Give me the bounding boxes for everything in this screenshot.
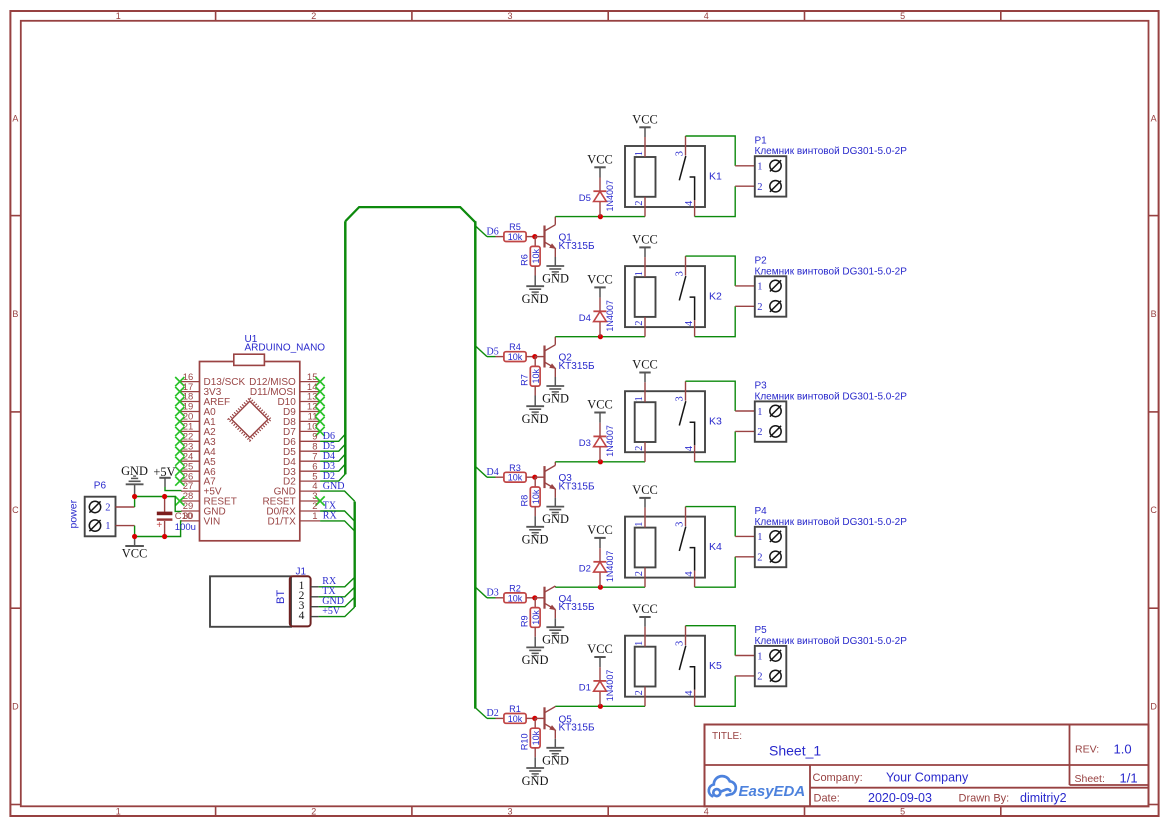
svg-text:K3: K3 [709, 416, 722, 428]
svg-text:2: 2 [634, 571, 645, 576]
svg-text:D: D [1150, 702, 1157, 712]
svg-text:Клемник винтовой DG301-5.0-2P: Клемник винтовой DG301-5.0-2P [755, 266, 908, 277]
svg-text:1N4007: 1N4007 [605, 425, 615, 457]
svg-text:P5: P5 [755, 625, 768, 636]
svg-text:1: 1 [757, 407, 762, 418]
svg-text:J1: J1 [296, 567, 307, 578]
svg-text:VCC: VCC [587, 642, 612, 656]
svg-text:C: C [12, 505, 19, 515]
svg-text:2: 2 [105, 503, 110, 514]
svg-text:KT315Б: KT315Б [559, 481, 595, 492]
svg-text:1: 1 [634, 396, 645, 401]
svg-text:1: 1 [116, 11, 121, 21]
svg-text:R8: R8 [520, 495, 530, 507]
svg-text:2: 2 [634, 446, 645, 451]
svg-text:GND: GND [522, 653, 549, 667]
svg-text:10k: 10k [508, 714, 523, 724]
svg-text:GND: GND [542, 753, 569, 767]
svg-text:1: 1 [105, 521, 110, 532]
svg-text:10k: 10k [531, 610, 541, 625]
svg-text:1: 1 [312, 511, 317, 522]
svg-text:P1: P1 [755, 136, 768, 147]
svg-text:1: 1 [116, 806, 121, 816]
svg-text:GND: GND [542, 272, 569, 286]
svg-text:+5V: +5V [153, 465, 175, 479]
svg-text:P2: P2 [755, 256, 768, 267]
svg-text:power: power [68, 499, 80, 528]
svg-text:3: 3 [507, 806, 512, 816]
svg-text:D2: D2 [487, 708, 499, 719]
svg-text:GND: GND [522, 774, 549, 788]
svg-text:Клемник винтовой DG301-5.0-2P: Клемник винтовой DG301-5.0-2P [755, 391, 908, 402]
svg-text:K1: K1 [709, 170, 722, 182]
svg-text:D4: D4 [579, 313, 591, 324]
svg-text:1N4007: 1N4007 [605, 551, 615, 583]
svg-text:R7: R7 [520, 374, 530, 386]
svg-text:C: C [1150, 505, 1157, 515]
svg-text:3: 3 [674, 641, 685, 646]
svg-text:5: 5 [900, 11, 905, 21]
svg-text:K2: K2 [709, 291, 722, 303]
svg-text:5: 5 [900, 806, 905, 816]
svg-text:VCC: VCC [632, 233, 657, 247]
svg-text:VCC: VCC [587, 273, 612, 287]
svg-text:D2: D2 [579, 563, 591, 574]
svg-text:KT315Б: KT315Б [559, 241, 595, 252]
svg-text:1N4007: 1N4007 [605, 300, 615, 332]
svg-text:Клемник винтовой DG301-5.0-2P: Клемник винтовой DG301-5.0-2P [755, 636, 908, 647]
svg-text:2: 2 [311, 806, 316, 816]
svg-text:B: B [1151, 309, 1157, 319]
svg-text:10k: 10k [531, 730, 541, 745]
svg-text:2020-09-03: 2020-09-03 [868, 791, 932, 805]
svg-text:10k: 10k [508, 352, 523, 362]
svg-text:4: 4 [684, 571, 695, 577]
svg-text:2: 2 [757, 302, 762, 313]
svg-text:REV:: REV: [1075, 744, 1099, 756]
svg-text:R5: R5 [509, 222, 521, 232]
svg-text:10k: 10k [508, 593, 523, 603]
svg-text:1: 1 [757, 282, 762, 293]
svg-text:TITLE:: TITLE: [712, 731, 742, 742]
svg-text:C10: C10 [175, 511, 192, 522]
svg-text:K5: K5 [709, 660, 722, 672]
svg-text:+5V: +5V [322, 606, 341, 617]
svg-text:3: 3 [674, 151, 685, 156]
svg-text:1: 1 [634, 641, 645, 646]
svg-text:D6: D6 [487, 226, 499, 237]
svg-text:4: 4 [704, 11, 709, 21]
svg-text:VCC: VCC [632, 112, 657, 126]
svg-text:10k: 10k [531, 489, 541, 504]
svg-text:R4: R4 [509, 342, 521, 352]
svg-text:Клемник винтовой DG301-5.0-2P: Клемник винтовой DG301-5.0-2P [755, 146, 908, 157]
svg-text:RX: RX [323, 511, 338, 522]
svg-text:4: 4 [684, 200, 695, 206]
svg-text:2: 2 [757, 427, 762, 438]
svg-text:100u: 100u [175, 522, 196, 533]
svg-text:GND: GND [522, 533, 549, 547]
svg-text:2: 2 [757, 672, 762, 683]
svg-text:BT: BT [275, 590, 287, 604]
svg-text:GND: GND [121, 464, 148, 478]
svg-text:D: D [12, 702, 19, 712]
svg-text:3: 3 [507, 11, 512, 21]
svg-text:dimitriy2: dimitriy2 [1020, 791, 1067, 805]
svg-text:10k: 10k [531, 369, 541, 384]
svg-text:3: 3 [674, 271, 685, 276]
svg-text:KT315Б: KT315Б [559, 723, 595, 734]
svg-text:R6: R6 [520, 254, 530, 266]
svg-text:R3: R3 [509, 463, 521, 473]
svg-text:KT315Б: KT315Б [559, 361, 595, 372]
svg-text:R10: R10 [520, 733, 530, 750]
svg-text:KT315Б: KT315Б [559, 602, 595, 613]
svg-text:Company:: Company: [813, 772, 863, 784]
svg-text:D3: D3 [579, 438, 591, 449]
svg-text:ARDUINO_NANO: ARDUINO_NANO [245, 343, 326, 354]
svg-text:+: + [156, 520, 162, 531]
svg-text:R1: R1 [509, 704, 521, 714]
svg-text:GND: GND [542, 512, 569, 526]
svg-text:1: 1 [757, 532, 762, 543]
svg-text:Sheet:: Sheet: [1075, 773, 1105, 785]
svg-text:1.0: 1.0 [1114, 742, 1132, 757]
svg-text:D4: D4 [487, 467, 499, 478]
svg-text:VCC: VCC [122, 547, 147, 561]
svg-text:3: 3 [674, 396, 685, 401]
svg-text:D5: D5 [487, 346, 499, 357]
svg-text:D1/TX: D1/TX [267, 517, 296, 528]
svg-text:4: 4 [684, 445, 695, 451]
svg-text:R2: R2 [509, 583, 521, 593]
svg-text:Your Company: Your Company [886, 771, 969, 785]
svg-text:R9: R9 [520, 615, 530, 627]
svg-text:10k: 10k [531, 249, 541, 264]
svg-text:GND: GND [542, 633, 569, 647]
svg-text:GND: GND [542, 392, 569, 406]
svg-text:A: A [1151, 113, 1157, 123]
svg-text:4: 4 [684, 320, 695, 326]
svg-text:1: 1 [634, 522, 645, 527]
svg-text:D3: D3 [487, 588, 499, 599]
svg-text:1N4007: 1N4007 [605, 180, 615, 212]
svg-text:10k: 10k [508, 232, 523, 242]
svg-text:Клемник винтовой DG301-5.0-2P: Клемник винтовой DG301-5.0-2P [755, 517, 908, 528]
svg-text:4: 4 [704, 806, 709, 816]
svg-text:1N4007: 1N4007 [605, 670, 615, 702]
svg-text:4: 4 [299, 610, 305, 622]
svg-text:VCC: VCC [587, 398, 612, 412]
svg-text:2: 2 [757, 182, 762, 193]
svg-text:VCC: VCC [632, 358, 657, 372]
svg-text:B: B [12, 309, 18, 319]
svg-text:2: 2 [634, 321, 645, 326]
svg-text:2: 2 [311, 11, 316, 21]
svg-text:3: 3 [674, 522, 685, 527]
svg-text:GND: GND [522, 412, 549, 426]
svg-text:1: 1 [757, 162, 762, 173]
svg-text:2: 2 [757, 553, 762, 564]
svg-text:EasyEDA: EasyEDA [739, 783, 806, 800]
svg-text:Sheet_1: Sheet_1 [769, 743, 821, 759]
svg-text:VCC: VCC [587, 153, 612, 167]
svg-text:1: 1 [634, 151, 645, 156]
svg-text:P4: P4 [755, 506, 768, 517]
svg-text:A: A [12, 113, 18, 123]
svg-text:P3: P3 [755, 381, 768, 392]
svg-text:Date:: Date: [814, 793, 840, 805]
svg-text:VCC: VCC [632, 483, 657, 497]
svg-text:10k: 10k [508, 473, 523, 483]
svg-text:1: 1 [634, 271, 645, 276]
svg-text:D5: D5 [579, 193, 591, 204]
svg-text:1/1: 1/1 [1120, 771, 1138, 786]
svg-text:2: 2 [634, 690, 645, 695]
svg-text:2: 2 [634, 200, 645, 205]
svg-text:1: 1 [757, 651, 762, 662]
svg-text:K4: K4 [709, 541, 722, 553]
svg-text:P6: P6 [94, 481, 107, 492]
svg-text:VCC: VCC [587, 523, 612, 537]
svg-text:VCC: VCC [632, 602, 657, 616]
svg-text:4: 4 [684, 690, 695, 696]
svg-text:GND: GND [323, 481, 345, 492]
svg-text:VIN: VIN [204, 517, 221, 528]
svg-text:GND: GND [522, 292, 549, 306]
svg-text:Drawn By:: Drawn By: [959, 793, 1010, 805]
svg-text:D1: D1 [579, 683, 591, 694]
